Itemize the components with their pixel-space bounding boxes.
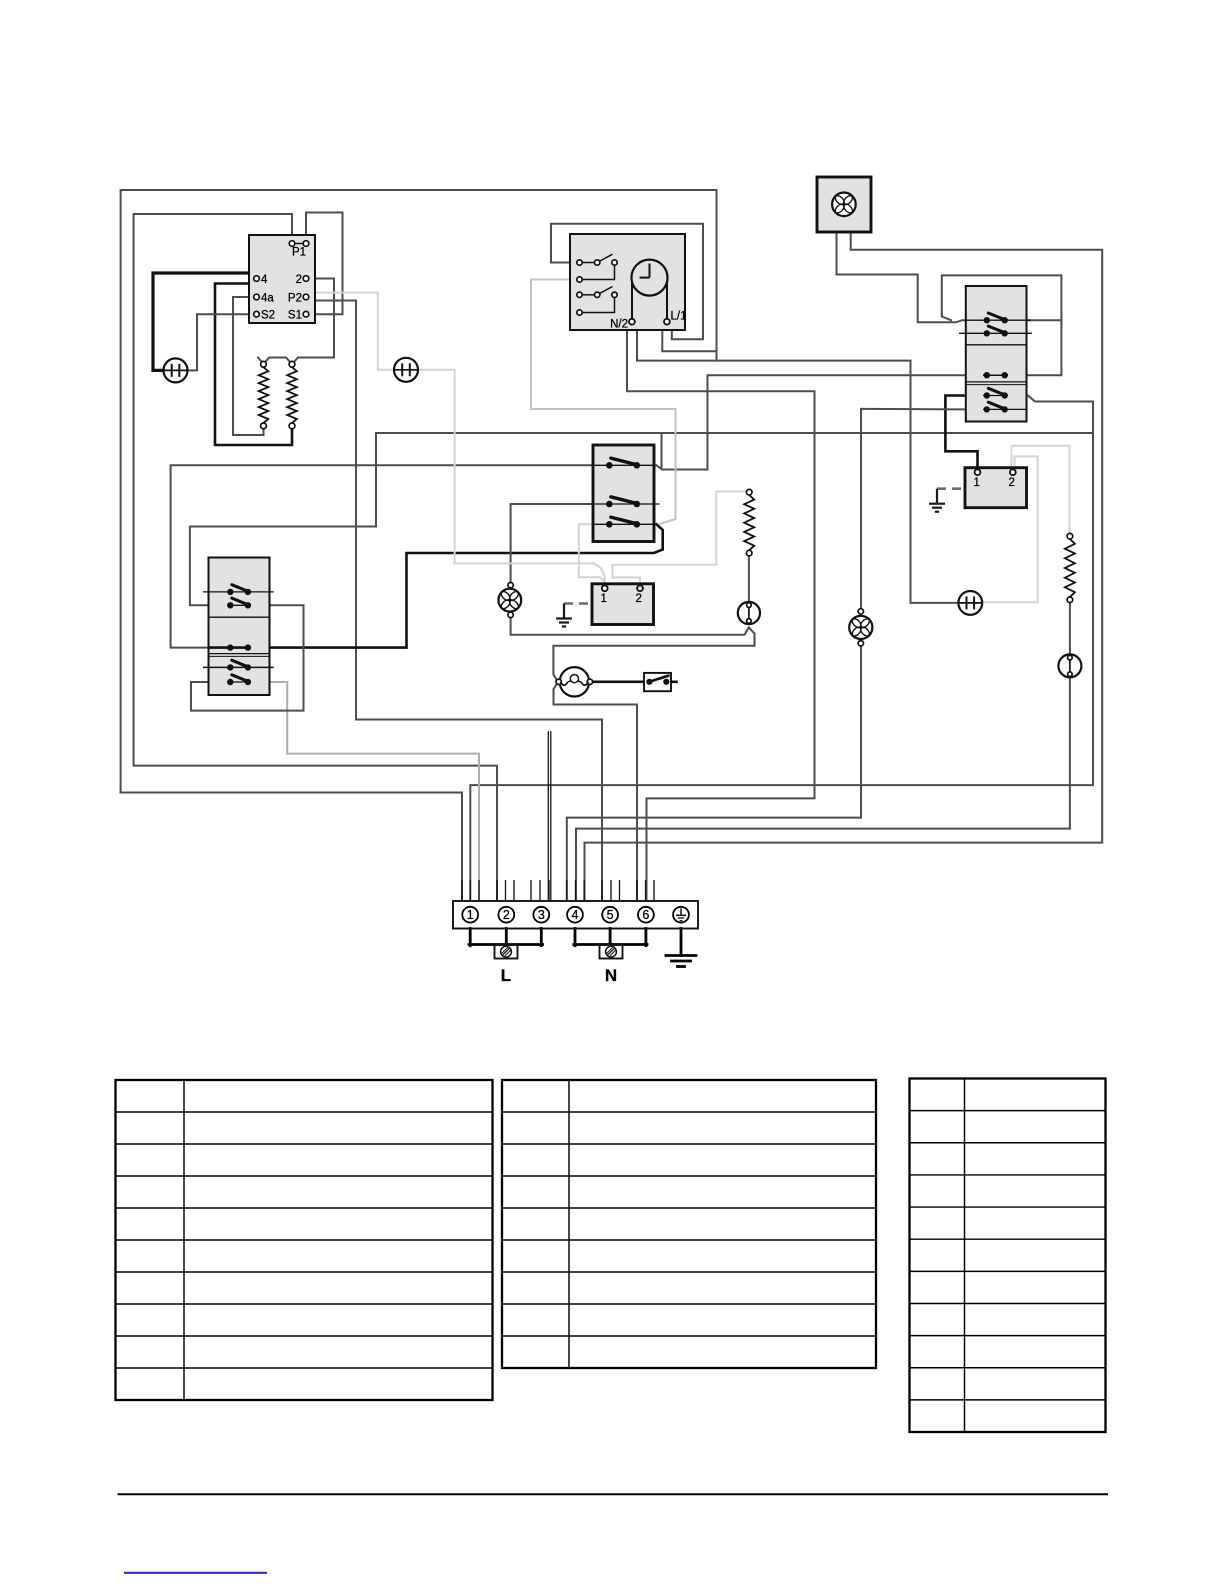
wire: right bank switch1 bridge to switch3 right: [942, 275, 1062, 375]
oven cavity fan motor: [498, 589, 521, 612]
left bank divider 1: [209, 616, 270, 618]
bake element resistor: [261, 361, 267, 367]
svg-text:S2: S2: [261, 310, 275, 322]
wire: pin 4 lower hook to grill element bottom: [215, 284, 292, 446]
wire: right bank switch4 left to ignition box pin1 (black): [945, 396, 986, 469]
wire: oven lamp right to door switch: [593, 680, 646, 683]
central control box ground dash: [564, 602, 592, 605]
right bank switch 1: [966, 319, 1031, 321]
wire: frame top/left (L/1 live loop): [121, 190, 717, 793]
wire: frame-left to terminal 1: [121, 793, 462, 902]
terminal block: [453, 901, 698, 929]
signal lamp left: [164, 358, 188, 382]
central control box: [592, 584, 654, 625]
timer switch 1: [582, 262, 594, 264]
svg-text:2: 2: [503, 908, 510, 922]
wire: fan box right lead to terminal 4: [585, 232, 1103, 901]
ground earth terminal: [666, 954, 696, 957]
wire: S2 to signal lamp right: [187, 314, 254, 370]
timer contact pin 1: [577, 260, 582, 265]
right switch bank: [966, 286, 1027, 422]
wire: oven fan motor drop: [860, 409, 862, 611]
wire: P1 left pin up-left-down to terminal 2: [134, 214, 497, 901]
signal lamp right of P2: [394, 358, 418, 382]
energy regulator pins P1: [292, 243, 306, 245]
left bank divider 2: [209, 653, 270, 655]
svg-text:1: 1: [467, 908, 474, 922]
left bank switch 2: [227, 604, 251, 606]
wire: door switch right stub: [666, 680, 676, 683]
ignition box ground dash: [937, 487, 965, 490]
wire: ignition pin2 to top-heat resistor (light): [1012, 446, 1070, 534]
wire: P2 light gray to lamp2: [308, 293, 394, 370]
footer rule: [118, 1493, 1109, 1495]
wire: P2 dark to terminal 5: [308, 301, 602, 902]
wire: lamp4 bottom to terminal 4: [576, 677, 1070, 901]
right bank divider 2: [966, 381, 1027, 383]
wire: central box pin2 to broil resistor top (light): [612, 492, 746, 585]
terminal 2: [498, 907, 514, 923]
wire: timer contact 2 to central switch3 right (light gray): [531, 280, 676, 525]
terminal 5: [602, 907, 618, 923]
svg-text:1: 1: [974, 477, 980, 489]
central switch 1: [606, 462, 613, 469]
timer contact pin 4: [577, 310, 582, 315]
timer clock: [632, 260, 668, 296]
svg-text:N/2: N/2: [610, 319, 628, 331]
svg-text:2: 2: [296, 274, 302, 286]
central switch 3: [606, 521, 613, 528]
legend table 3: [910, 1079, 1106, 1433]
terminal earth: [673, 907, 689, 923]
ground ignition: [936, 489, 938, 504]
wire: ignition pin2 inner hook to lamp3 (light): [983, 456, 1038, 602]
svg-text:2: 2: [1009, 477, 1015, 489]
wire: central switch3 left to central box pin1 (light): [579, 524, 605, 582]
svg-text:6: 6: [642, 908, 649, 922]
footer link underline: [124, 1572, 267, 1574]
svg-text:4a: 4a: [261, 293, 274, 305]
svg-text:4: 4: [261, 274, 268, 286]
wire: left bank row5 right to terminal 1 (light): [248, 682, 479, 901]
wire: right bank switch1 right stub to bridge: [1005, 319, 1062, 321]
wire: central switch1 right to right bank switch3 row: [637, 375, 987, 469]
wire: left bank middle row to central switch 3 right (black): [248, 524, 663, 647]
svg-text:2: 2: [636, 593, 642, 605]
ignition box pin 1: [975, 469, 981, 475]
left bank switch 3 closed: [227, 644, 233, 650]
legend table 2: [502, 1080, 876, 1368]
wire: twin lead to terminal 3: [547, 731, 549, 901]
left bank switch 5: [227, 681, 251, 683]
timer pin N/2: [629, 319, 635, 325]
central control box pin 2: [637, 585, 643, 591]
N screw box: [600, 945, 623, 959]
svg-text:S1: S1: [288, 310, 302, 322]
wire: P1 right pin to S1: [306, 213, 343, 315]
right bank divider 1: [966, 344, 1027, 346]
energy regulator pin 4: [254, 276, 260, 282]
wire: fan bottom to round lamp bottom: [511, 618, 749, 635]
wire: pin 2 down to elements top: [298, 279, 334, 358]
top heat resistor: [1067, 533, 1073, 539]
terminal 4: [567, 907, 583, 923]
broil resistor: [746, 489, 752, 495]
N bridge: [574, 929, 577, 946]
ignition box: [965, 468, 1027, 508]
wire: oven lamp left lower to terminal 6: [554, 684, 638, 901]
wire: top-heat resistor bottom to lamp4: [1069, 603, 1071, 655]
ignition box pin 2: [1010, 469, 1016, 475]
left bank switch 4: [203, 666, 274, 668]
ground central: [563, 604, 565, 619]
svg-text:3: 3: [538, 908, 545, 922]
wire: central switch2 left to fan top: [511, 504, 610, 583]
lamp4 indicator: [1058, 654, 1081, 677]
oven lamp: [560, 667, 589, 696]
wire: lamp2 right to central box pin1 (light): [418, 370, 605, 585]
wire: pin 4 to signal lamp left (thick): [153, 273, 254, 370]
wire: timer N/2 right branch neutral line to oven lamp: [635, 326, 959, 603]
svg-text:P2: P2: [288, 293, 302, 305]
energy regulator pin 4a: [254, 294, 260, 300]
wire: round lamp bottom to oven lamp left upper: [553, 628, 754, 681]
legend table 1: [116, 1080, 493, 1400]
wire: oven fan motor bottom to terminal 4: [567, 643, 861, 901]
svg-text:L: L: [501, 966, 511, 985]
energy regulator pin S1: [303, 311, 309, 317]
wire: right bank switch5 left to oven fan motor: [861, 408, 987, 411]
energy regulator pin 2: [303, 276, 309, 282]
timer switch 2: [582, 294, 594, 296]
wire: timer L/1 right branch loop to timer contact 1: [551, 224, 703, 340]
wire: element top links: [258, 358, 298, 365]
wire: round lamp top to broil resistor bottom: [748, 556, 750, 602]
cooling fan box: [817, 177, 871, 232]
svg-text:5: 5: [607, 908, 614, 922]
wire: drop from 433 bus to central switch1 right: [661, 433, 663, 467]
wire: 4a to bake element bottom: [233, 297, 264, 435]
timer contact pin 2: [577, 277, 582, 282]
wire: central switch 1 left long line: [171, 465, 610, 647]
timer clock side leads: [631, 283, 633, 319]
svg-text:P1: P1: [292, 247, 306, 259]
svg-text:L/1: L/1: [671, 311, 687, 323]
central selector switch bank: [593, 445, 654, 542]
energy regulator box: [249, 235, 315, 323]
L screw box: [495, 945, 518, 959]
wire: timer L/1 left branch to frame: [662, 326, 716, 352]
grill element resistor: [289, 361, 295, 367]
right bank switch 3 closed: [983, 374, 1008, 376]
wire: left bank row2 right loop to row5 left: [191, 605, 304, 710]
terminal 1: [462, 907, 478, 923]
central switch 2: [606, 501, 613, 508]
wire: left bank row2 net via top loop to junction bus: [190, 433, 1093, 605]
svg-text:1: 1: [601, 593, 607, 605]
terminal 3: [533, 907, 549, 923]
cooling fan symbol: [832, 193, 856, 217]
right bank switch 2: [959, 332, 1032, 334]
earth lead: [680, 929, 683, 956]
energy regulator pin P2: [303, 294, 309, 300]
timer contact pin 3: [577, 292, 582, 297]
right bank switch 5: [983, 408, 1027, 410]
left switch bank: [209, 558, 270, 696]
wire: timer N/2 left branch to terminal 6: [627, 326, 815, 902]
timer box: [570, 234, 685, 330]
wire: fan box left lead to right bank switch1: [837, 232, 987, 322]
wire: right bank switch4 right to 433 bus down to terminal 1: [470, 396, 1093, 902]
lamp3 indicator: [958, 591, 982, 615]
round lamp motor symbol: [738, 602, 760, 624]
door switch contacts: [646, 679, 652, 685]
terminal 6: [638, 907, 654, 923]
oven rear fan motor: [849, 616, 872, 639]
terminal entry ticks: [461, 880, 463, 901]
L bridge: [469, 929, 472, 946]
energy regulator pin S2: [254, 311, 260, 317]
left bank switch 1: [203, 591, 274, 593]
timer pin L/1: [664, 319, 670, 325]
door switch box: [644, 673, 671, 691]
right bank switch 4: [983, 395, 1008, 397]
central control box pin 1: [602, 585, 608, 591]
svg-text:4: 4: [572, 908, 579, 922]
svg-text:N: N: [605, 966, 617, 985]
